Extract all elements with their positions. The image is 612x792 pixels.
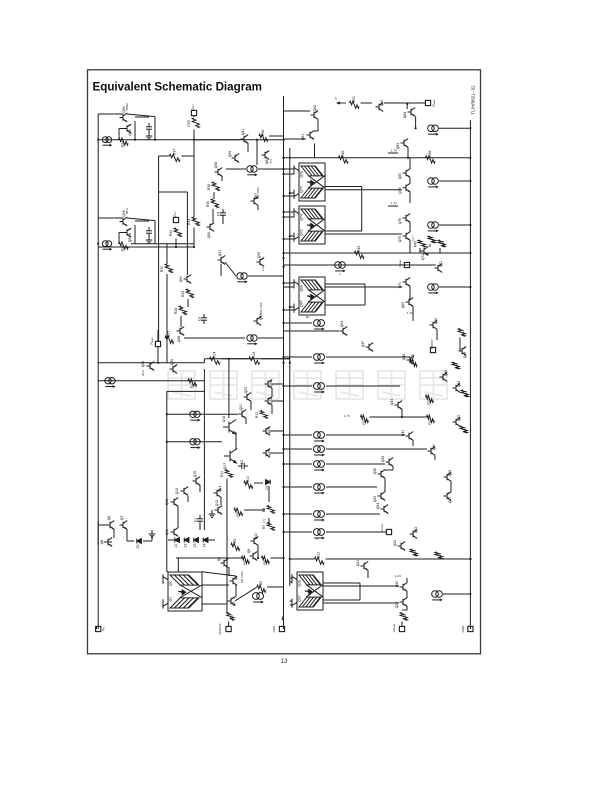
wire — [203, 359, 205, 363]
wire — [439, 127, 470, 129]
junction — [282, 266, 284, 268]
wire — [284, 173, 295, 175]
junction — [282, 216, 284, 218]
current source — [105, 378, 115, 384]
svg-text:3 V: 3 V — [261, 267, 265, 271]
svg-text:Q14: Q14 — [218, 486, 222, 493]
resistor R29 — [186, 289, 193, 298]
pad — [399, 626, 404, 631]
svg-text:R19: R19 — [413, 550, 417, 556]
resistor R25 — [410, 359, 417, 366]
svg-text:Q59: Q59 — [228, 151, 232, 158]
svg-text:Q49: Q49 — [463, 352, 467, 359]
wire — [213, 192, 215, 199]
svg-text:Z5: Z5 — [136, 544, 140, 548]
svg-text:R28: R28 — [174, 308, 178, 314]
svg-text:R30: R30 — [160, 266, 164, 272]
svg-text:1.7V: 1.7V — [344, 414, 350, 418]
wire — [187, 496, 189, 502]
resistor R2 — [257, 585, 266, 592]
transistor Q38 — [444, 473, 452, 482]
svg-text:Q33: Q33 — [414, 527, 418, 534]
transistor Q19 — [263, 449, 271, 458]
wire — [257, 206, 259, 211]
transistor Q14 — [214, 489, 222, 498]
wire — [290, 306, 294, 308]
wire — [412, 441, 414, 447]
wire — [367, 570, 369, 578]
current source — [102, 137, 111, 143]
svg-text:R9: R9 — [236, 512, 240, 516]
capacitor — [146, 123, 152, 133]
transistor Q21 — [239, 410, 247, 419]
svg-text:Q7: Q7 — [120, 516, 124, 521]
wire — [226, 168, 246, 170]
svg-text:R25: R25 — [411, 354, 415, 360]
svg-text:Q75: Q75 — [398, 236, 402, 243]
svg-text:R36: R36 — [207, 184, 211, 190]
wire — [267, 586, 284, 588]
junction — [166, 441, 168, 443]
wire — [202, 603, 227, 605]
junction — [282, 557, 284, 559]
svg-text:R39: R39 — [187, 120, 191, 126]
wire center bus B — [289, 148, 291, 586]
svg-text:Q32: Q32 — [393, 540, 397, 547]
transistor Q62 — [311, 111, 319, 120]
wire — [326, 558, 471, 560]
transistor Q15 — [181, 487, 189, 496]
junction — [282, 463, 284, 465]
wire — [402, 609, 407, 611]
wire — [119, 128, 124, 130]
resistor R45 — [355, 251, 365, 258]
wire — [269, 135, 284, 137]
junction — [166, 413, 168, 415]
transistor Q34 — [381, 505, 389, 514]
svg-text:Q62: Q62 — [128, 129, 132, 136]
wire — [284, 330, 340, 332]
resistor R12 — [260, 411, 267, 419]
resistor R46 — [438, 240, 445, 247]
wire — [326, 463, 385, 465]
wire — [409, 223, 411, 233]
wire — [284, 309, 295, 311]
junction — [401, 416, 403, 418]
wire — [134, 225, 136, 244]
junction — [282, 139, 284, 141]
svg-text:R32: R32 — [169, 230, 173, 236]
wire — [325, 286, 402, 288]
wire — [158, 156, 160, 341]
wire — [364, 284, 366, 305]
wire — [154, 117, 156, 140]
wire — [212, 209, 214, 222]
wire — [134, 121, 136, 140]
junction — [407, 157, 409, 159]
resistor R10 — [244, 481, 253, 488]
svg-text:Q4: Q4 — [234, 576, 238, 581]
wire — [325, 186, 362, 188]
wire — [387, 513, 389, 516]
transistor Q43 — [395, 401, 403, 410]
wire — [284, 168, 295, 170]
svg-text:Q72: Q72 — [421, 254, 425, 261]
wire — [407, 148, 409, 158]
capacitor C2 — [238, 463, 248, 469]
power transistor pair Q28/Q27 — [292, 572, 323, 610]
transistor Q25 — [147, 362, 155, 371]
svg-text:Q38: Q38 — [448, 470, 452, 477]
wire — [118, 129, 120, 140]
wire — [258, 168, 284, 170]
svg-text:R4: R4 — [263, 560, 267, 564]
wire — [261, 358, 290, 360]
transistor Q39 — [386, 458, 394, 467]
resistor R11 — [225, 470, 232, 478]
resistor R21 — [361, 415, 369, 422]
svg-text:R7: R7 — [262, 525, 266, 529]
wire — [113, 529, 115, 538]
wire — [370, 416, 427, 418]
svg-text:1.7V: 1.7V — [391, 149, 397, 153]
wire — [127, 540, 134, 542]
wire rail — [98, 362, 204, 364]
svg-text:88 A: 88 A — [125, 208, 129, 214]
svg-text:D1: D1 — [265, 485, 269, 489]
resistor R41 — [458, 329, 465, 337]
svg-text:1.7V: 1.7V — [407, 311, 413, 315]
wire — [256, 140, 258, 165]
svg-text:R34: R34 — [187, 219, 191, 225]
transistor Q42 — [453, 418, 461, 427]
wire — [284, 282, 295, 284]
svg-text:Q54 A: Q54 A — [128, 232, 132, 242]
wire — [96, 626, 98, 629]
wire — [244, 509, 265, 511]
svg-text:Q73: Q73 — [300, 229, 304, 236]
transistor Q36 — [378, 470, 386, 479]
wire — [167, 413, 238, 415]
wire — [419, 248, 421, 253]
resistor R7 — [267, 523, 274, 531]
transistor Q8 — [105, 538, 113, 547]
transistor Q20 — [263, 427, 271, 436]
wire — [177, 506, 179, 528]
wire — [361, 102, 373, 104]
wire — [270, 430, 284, 432]
wire — [326, 356, 410, 358]
svg-text:ON / OFF: ON / OFF — [240, 571, 244, 583]
svg-text:Q27: Q27 — [298, 595, 302, 602]
svg-text:R20: R20 — [463, 427, 467, 433]
junction — [282, 448, 284, 450]
wire — [202, 584, 229, 586]
transistor Q44 — [453, 384, 461, 393]
wire — [187, 299, 189, 307]
transistor Q54 A — [124, 228, 132, 237]
resistor R8 — [267, 506, 274, 514]
wire — [439, 248, 441, 253]
transistor Q50 — [184, 275, 192, 284]
svg-text:C2: C2 — [240, 460, 244, 464]
wire — [459, 338, 461, 352]
junction — [469, 157, 471, 159]
wire — [159, 155, 170, 157]
transistor Q66 — [430, 321, 438, 330]
wire — [326, 434, 405, 436]
wire — [409, 241, 411, 254]
power transistor pair Q68/Q67 — [294, 277, 325, 315]
svg-text:Q45: Q45 — [444, 370, 448, 377]
transistor Q17 — [224, 449, 237, 464]
wire — [176, 557, 242, 559]
resistor R37 — [170, 154, 181, 161]
wire — [429, 244, 431, 247]
svg-text:BOOST: BOOST — [430, 339, 434, 349]
junction — [289, 306, 291, 308]
transistor Q5 — [221, 559, 229, 568]
svg-text:Z3: Z3 — [193, 543, 197, 547]
svg-text:Q15: Q15 — [175, 488, 179, 495]
resistor R9 — [234, 508, 243, 515]
wire — [166, 244, 168, 264]
wire — [167, 571, 168, 573]
wire — [450, 482, 452, 493]
svg-text:Q62: Q62 — [313, 105, 317, 112]
svg-text:Z1: Z1 — [174, 543, 178, 547]
svg-text:Q70: Q70 — [398, 282, 402, 289]
svg-text:13: 13 — [281, 658, 288, 665]
wire — [167, 441, 222, 443]
svg-text:Q50: Q50 — [179, 276, 183, 283]
svg-text:R27: R27 — [167, 331, 171, 337]
junction — [289, 558, 291, 560]
svg-text:Q43: Q43 — [390, 399, 394, 406]
wire — [194, 139, 240, 141]
wire — [323, 599, 360, 601]
transistor Q84 — [408, 108, 416, 117]
junction — [469, 224, 471, 226]
power transistor pair Q2/Q1 — [163, 572, 202, 611]
transistor Q47 — [366, 343, 374, 352]
wire — [235, 432, 237, 450]
wire — [290, 581, 292, 583]
wire — [284, 322, 313, 324]
wire — [284, 434, 313, 436]
wire — [409, 178, 411, 184]
svg-text:Q79: Q79 — [398, 187, 402, 194]
junction — [282, 252, 284, 254]
wire — [284, 211, 295, 213]
wire — [271, 557, 284, 559]
transistor Q24 — [265, 380, 273, 389]
wire — [323, 585, 399, 587]
wire — [154, 221, 156, 244]
svg-text:R1: R1 — [230, 615, 234, 619]
wire — [119, 232, 124, 234]
transistor Q37 — [444, 492, 452, 501]
junction — [289, 362, 291, 364]
wire — [257, 545, 259, 558]
wire — [409, 192, 411, 203]
resistor R28 — [179, 306, 186, 315]
pad — [430, 347, 435, 352]
wire — [135, 116, 149, 118]
svg-text:Q40: Q40 — [432, 444, 436, 451]
wire — [282, 615, 284, 620]
wire — [203, 369, 205, 530]
svg-text:3 V: 3 V — [262, 519, 266, 523]
svg-text:Q18: Q18 — [222, 416, 226, 423]
wire — [157, 330, 159, 341]
current source — [313, 432, 324, 439]
transistor Q49 — [459, 347, 467, 356]
svg-text:Q12: Q12 — [165, 499, 169, 506]
junction — [282, 356, 284, 358]
svg-text:TL/H/9821–32: TL/H/9821–32 — [471, 85, 476, 115]
svg-text:Q9: Q9 — [247, 549, 251, 554]
wire box left — [166, 391, 168, 571]
svg-text:Q48: Q48 — [177, 336, 181, 343]
wire — [284, 252, 471, 254]
resistor R26 — [452, 362, 459, 369]
current source — [247, 335, 257, 341]
junction — [97, 139, 99, 141]
transistor Q56 — [207, 223, 215, 232]
svg-text:Q68: Q68 — [300, 285, 304, 292]
transistor Q4 — [230, 577, 238, 586]
wire — [459, 342, 461, 347]
junction — [406, 103, 408, 105]
current source — [432, 591, 443, 598]
resistor R15 — [249, 357, 260, 364]
resistor R5 — [231, 543, 240, 550]
wire — [127, 218, 155, 221]
resistor R3 — [242, 556, 250, 563]
wire — [268, 486, 270, 502]
transistor Q69 — [406, 298, 414, 307]
resistor R35 — [211, 199, 218, 208]
diode D1 — [266, 480, 271, 485]
resistor R45 — [418, 240, 425, 247]
resistor R36 — [212, 182, 219, 191]
transistor Q16 — [193, 477, 201, 486]
junction — [282, 385, 284, 387]
pad — [279, 626, 284, 631]
wire — [166, 274, 168, 363]
resistor R38 — [119, 138, 129, 145]
svg-text:R47: R47 — [431, 237, 435, 243]
resistor R20 — [460, 426, 467, 433]
wire — [135, 220, 149, 222]
pad — [404, 262, 409, 267]
svg-text:R13: R13 — [190, 382, 194, 388]
svg-text:Q47: Q47 — [361, 341, 365, 348]
junction — [415, 127, 417, 129]
svg-text:Q8: Q8 — [100, 540, 104, 545]
wire — [221, 176, 223, 181]
current source — [190, 411, 200, 417]
diode Z2 — [184, 538, 189, 543]
wire — [385, 469, 393, 471]
transistor Q62 — [124, 124, 132, 133]
transistor Q23 — [244, 393, 252, 402]
svg-text:Q44: Q44 — [457, 381, 461, 388]
transistor Q13 — [215, 506, 223, 515]
junction — [289, 157, 291, 159]
junction — [157, 362, 159, 364]
resistor R16 — [400, 613, 407, 621]
transistor Q26 — [170, 365, 178, 374]
wire — [206, 539, 215, 541]
wire — [272, 383, 284, 385]
svg-text:Q56: Q56 — [207, 232, 211, 239]
svg-text:Q35: Q35 — [373, 496, 377, 503]
svg-text:Q67: Q67 — [300, 300, 304, 307]
transistor Q12 — [171, 498, 179, 507]
wire rail — [98, 246, 194, 248]
wire — [98, 524, 106, 526]
wire — [314, 144, 316, 158]
junction — [134, 139, 136, 141]
transistor Q58 — [215, 168, 223, 177]
wire — [443, 593, 470, 595]
junction — [469, 286, 471, 288]
transistor Q65 — [376, 103, 384, 112]
svg-text:Q10: Q10 — [254, 533, 258, 540]
transistor Q80 — [403, 169, 411, 178]
svg-text:8 V: 8 V — [269, 159, 273, 163]
transistor Q76 — [403, 214, 411, 223]
svg-text:R18: R18 — [438, 553, 442, 559]
wire — [326, 513, 380, 515]
wire rail — [204, 358, 289, 360]
resistor R1 — [227, 613, 234, 621]
diode Z5 — [137, 539, 142, 544]
junction — [282, 322, 284, 324]
pad — [468, 626, 473, 631]
current source — [428, 125, 439, 132]
wire — [388, 152, 398, 154]
wire — [436, 330, 438, 341]
wire — [427, 253, 429, 256]
svg-text:Q65: Q65 — [380, 100, 384, 107]
svg-text:Z4: Z4 — [203, 543, 207, 547]
current source — [190, 439, 200, 445]
current source — [313, 511, 324, 518]
ground — [146, 236, 153, 243]
junction — [257, 557, 259, 559]
transistor Q51 — [218, 256, 226, 265]
svg-text:R16: R16 — [403, 614, 407, 620]
pad — [96, 626, 101, 631]
svg-text:R21: R21 — [362, 418, 366, 424]
current source — [313, 484, 324, 491]
svg-text:Q26: Q26 — [170, 359, 174, 366]
wire — [159, 191, 188, 193]
wire — [98, 217, 123, 219]
current source — [237, 273, 247, 279]
resistor R39 — [192, 118, 199, 128]
junction — [193, 246, 195, 248]
svg-text:Q3: Q3 — [232, 602, 236, 607]
wire rail — [98, 139, 283, 141]
wire — [392, 467, 394, 471]
svg-text:R2: R2 — [259, 581, 263, 585]
junction — [469, 593, 471, 595]
transistor Q61 — [307, 131, 315, 140]
